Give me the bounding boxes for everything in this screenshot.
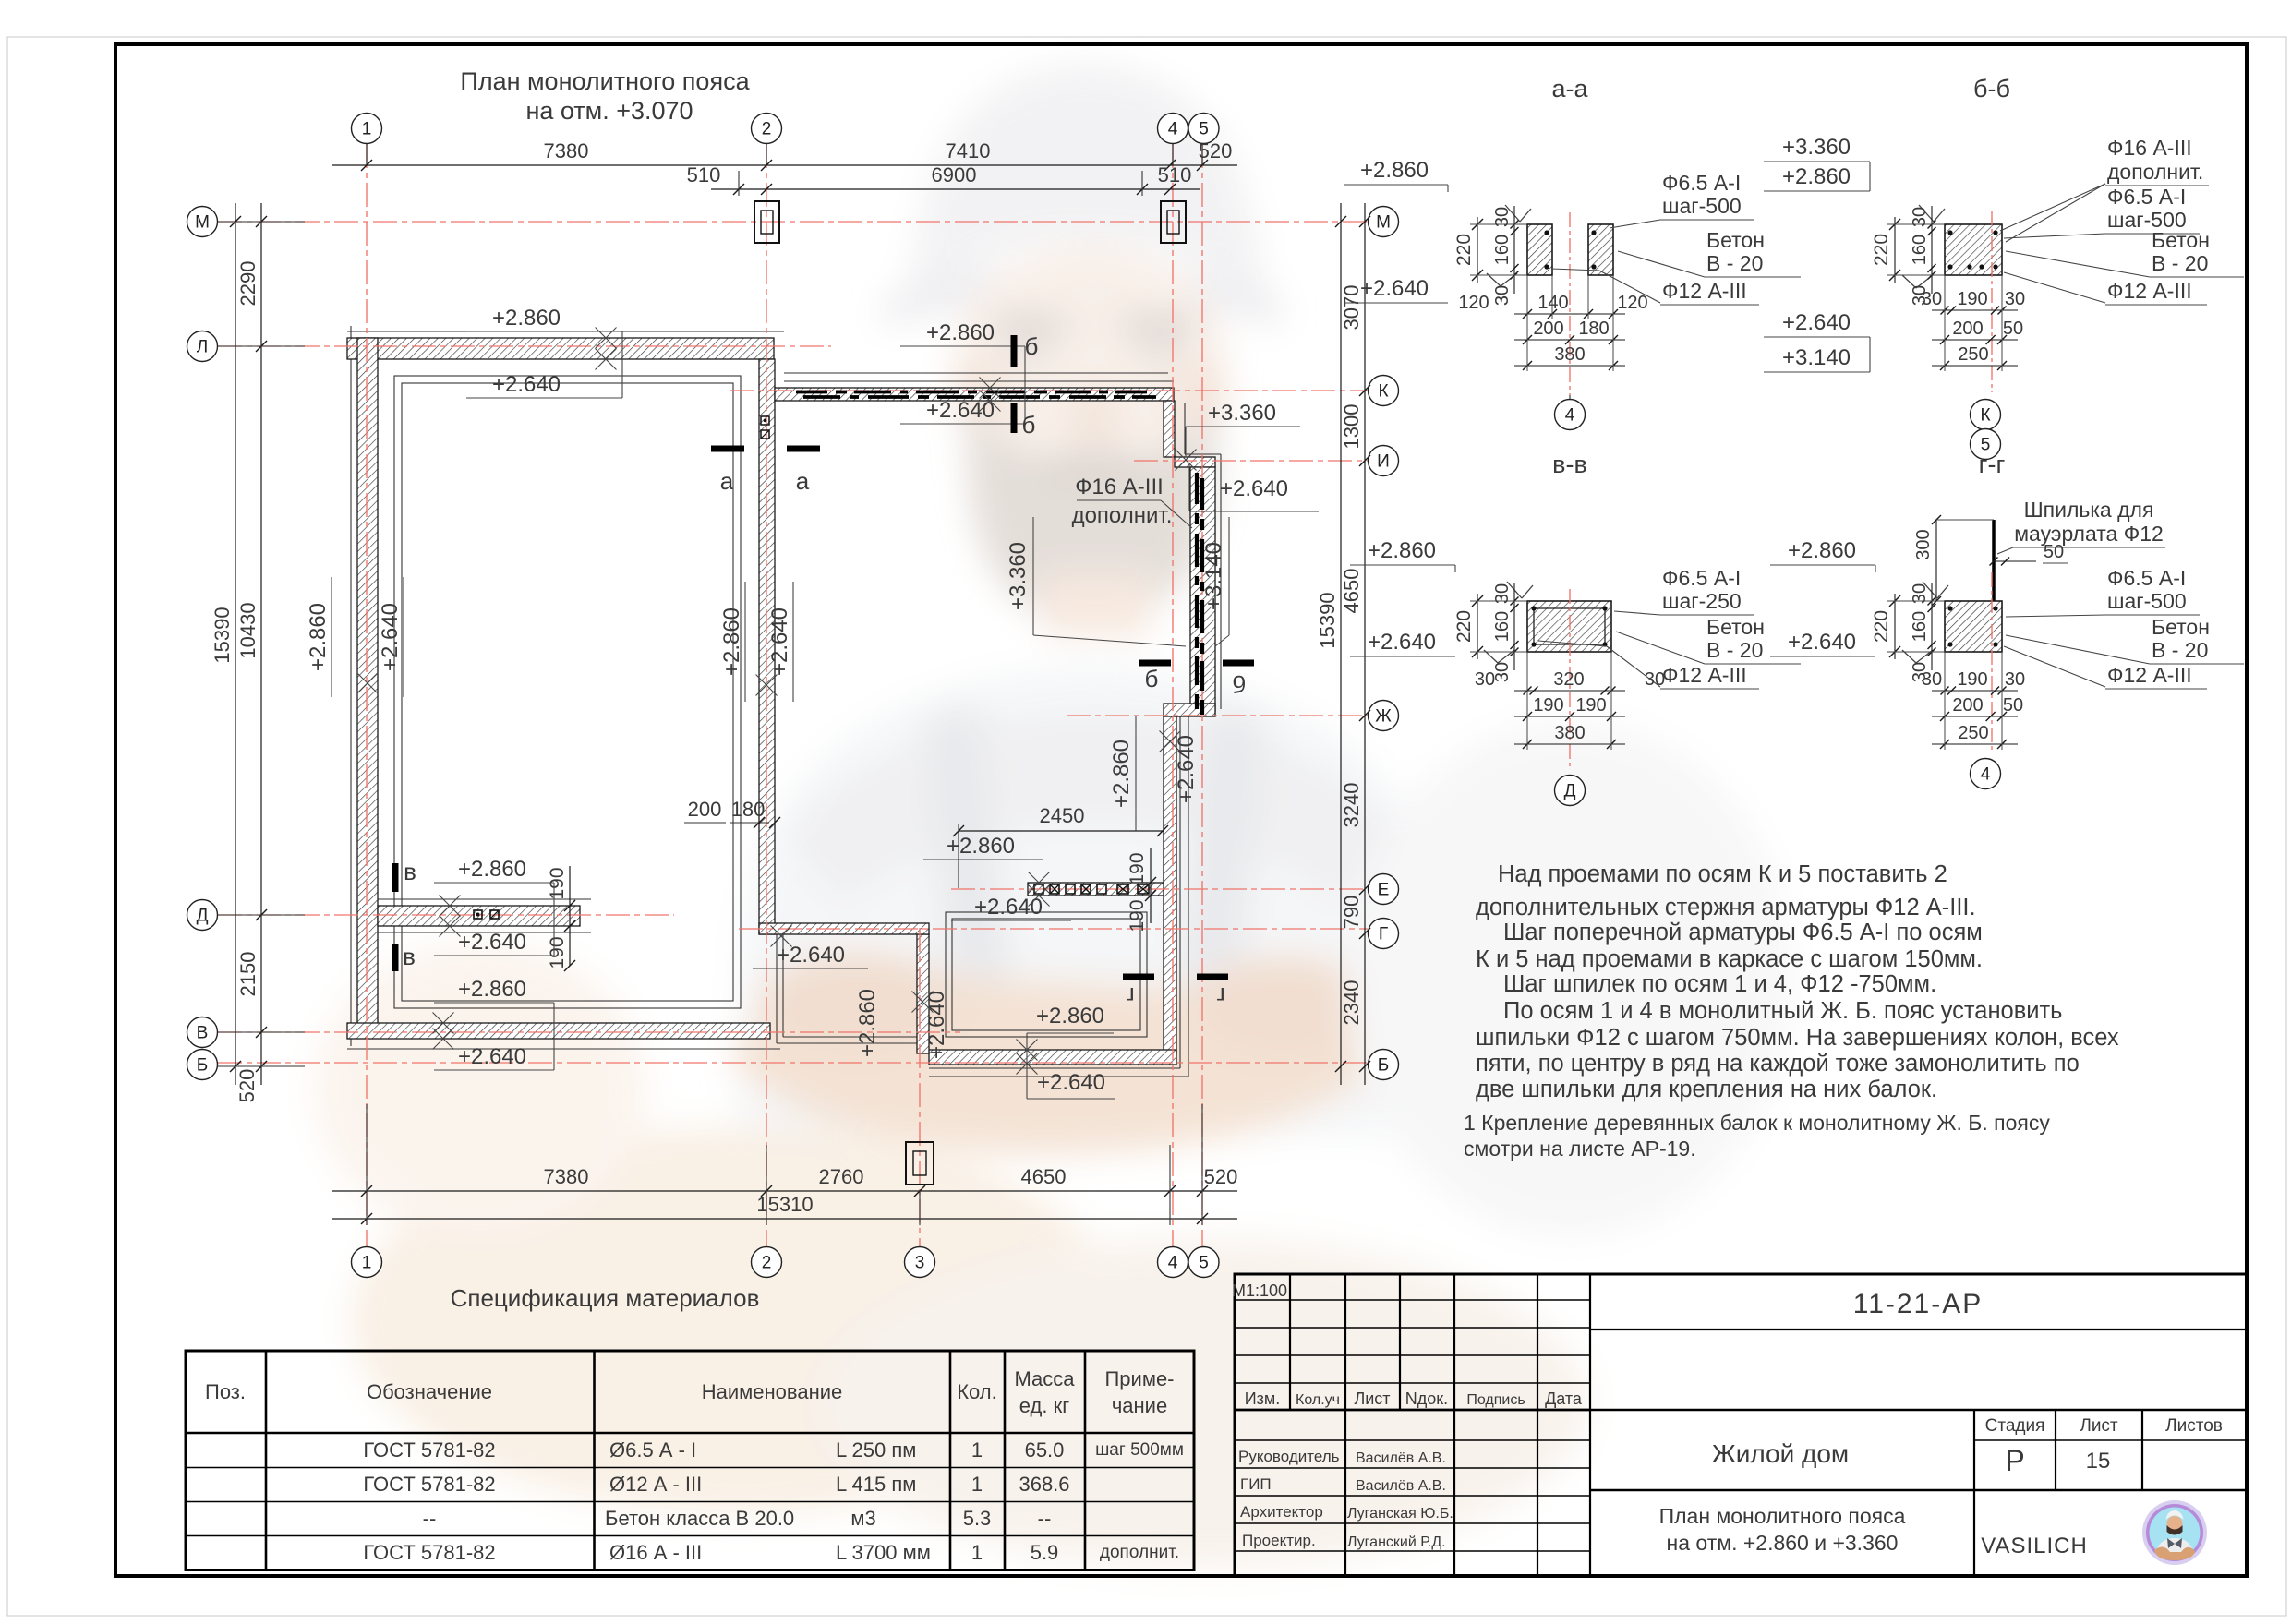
svg-text:ГОСТ 5781-82: ГОСТ 5781-82	[363, 1473, 495, 1496]
svg-text:шаг-500: шаг-500	[2107, 589, 2187, 613]
dim 190 190 at stub end	[569, 866, 571, 966]
rebar section symbols on wall Е	[1034, 884, 1043, 894]
svg-text:15390: 15390	[211, 607, 234, 663]
svg-text:мауэрлата Ф12: мауэрлата Ф12	[2014, 522, 2164, 546]
dim 190 190 at E wall	[1150, 848, 1152, 923]
section а-а dims bottom	[1514, 313, 1625, 315]
svg-text:Кол.: Кол.	[957, 1380, 997, 1403]
svg-text:В: В	[197, 1024, 209, 1043]
svg-text:И: И	[1377, 452, 1390, 472]
svg-text:в: в	[404, 858, 416, 885]
svg-text:520: 520	[235, 1069, 259, 1103]
svg-text:г: г	[1216, 982, 1224, 1010]
svg-text:160: 160	[1910, 235, 1930, 265]
svg-text:+2.640: +2.640	[974, 895, 1043, 920]
svg-text:380: 380	[1554, 723, 1585, 743]
svg-text:190: 190	[1127, 852, 1148, 884]
section г-г concrete	[1945, 601, 2002, 652]
wall outline thin lines	[347, 331, 784, 332]
section а-а circle 4	[1555, 400, 1586, 430]
svg-text:Шпилька для: Шпилька для	[2024, 498, 2154, 522]
svg-text:По осям 1 и 4 в монолитн: По осям 1 и 4 в монолитный Ж. Б. пояс ус…	[1503, 998, 2062, 1024]
wall axis4 upper short	[1164, 401, 1175, 457]
svg-text:10430: 10430	[236, 602, 259, 658]
svg-text:190: 190	[547, 936, 568, 968]
svg-text:Над проемами по осям К и: Над проемами по осям К и 5 поставить 2	[1498, 861, 1947, 887]
svg-text:790: 790	[1340, 896, 1363, 930]
section г-г dim 300	[1935, 520, 1937, 601]
svg-text:+2.640: +2.640	[458, 930, 526, 955]
svg-text:+3.140: +3.140	[1201, 542, 1226, 610]
svg-text:2450: 2450	[1040, 804, 1085, 827]
svg-text:2: 2	[762, 1254, 772, 1273]
svg-text:7380: 7380	[544, 139, 589, 162]
svg-text:380: 380	[1554, 344, 1585, 365]
svg-text:320: 320	[1553, 669, 1584, 690]
svg-text:Луганский Р.Д.: Луганский Р.Д.	[1347, 1534, 1446, 1550]
rebar symbols near axis2/К junction	[761, 416, 769, 425]
rebar section symbols on stub Д	[474, 910, 482, 919]
svg-text:+2.640: +2.640	[378, 603, 403, 671]
svg-text:а: а	[720, 467, 734, 495]
svg-text:Проектир.: Проектир.	[1242, 1532, 1316, 1549]
svg-text:Ф6.5 А-I: Ф6.5 А-I	[1662, 566, 1741, 590]
svg-text:1: 1	[971, 1473, 983, 1496]
svg-text:5: 5	[1199, 120, 1209, 139]
wall Г step horizontal	[759, 923, 929, 934]
svg-text:6900: 6900	[932, 163, 977, 186]
svg-text:ГИП: ГИП	[1240, 1475, 1272, 1493]
svg-text:+2.640: +2.640	[1037, 1070, 1105, 1095]
svg-text:50: 50	[2003, 695, 2023, 716]
svg-text:+2.640: +2.640	[926, 398, 995, 423]
svg-text:220: 220	[1453, 610, 1475, 643]
svg-text:Л: Л	[197, 338, 208, 357]
section в-в dims left	[1477, 594, 1478, 659]
bottom overall dim 15310	[332, 1218, 1237, 1220]
section б-б dims bottom	[1932, 309, 2018, 311]
title block	[1235, 1274, 2247, 1576]
svg-text:+2.640: +2.640	[1368, 630, 1436, 655]
wall И jog	[1175, 457, 1215, 467]
svg-text:510: 510	[1158, 163, 1192, 186]
svg-text:Ø6.5 А - I: Ø6.5 А - I	[609, 1438, 696, 1462]
svg-text:+2.860: +2.860	[306, 603, 331, 671]
svg-text:30: 30	[2005, 289, 2025, 309]
svg-text:+2.640: +2.640	[1220, 476, 1288, 501]
svg-text:Архитектор: Архитектор	[1240, 1503, 1323, 1521]
wall К horizontal hatched band	[775, 388, 1174, 401]
section mark а-а left	[711, 446, 744, 452]
svg-text:б: б	[1233, 670, 1247, 698]
svg-text:Д: Д	[1564, 782, 1576, 801]
section а-а concrete left	[1527, 224, 1552, 275]
svg-text:м3: м3	[850, 1507, 875, 1530]
wall axis 4 lower vertical	[1164, 716, 1176, 1053]
svg-text:4650: 4650	[1340, 569, 1363, 614]
section г-г axis	[1991, 572, 1993, 753]
svg-text:190: 190	[1957, 289, 1987, 309]
column marker axis2/М	[754, 201, 779, 243]
svg-text:Б: Б	[197, 1056, 208, 1076]
section а-а dims left	[1477, 217, 1478, 283]
section б-б circles К 5	[1971, 400, 2001, 430]
svg-text:30: 30	[1922, 669, 1942, 690]
svg-text:+2.860: +2.860	[1036, 1004, 1104, 1029]
axis circles right	[1369, 207, 1399, 237]
svg-text:+2.860: +2.860	[492, 306, 561, 331]
svg-text:30: 30	[1492, 285, 1513, 306]
section в-в concrete	[1527, 601, 1611, 652]
svg-text:65.0: 65.0	[1025, 1438, 1065, 1462]
svg-text:б-б: б-б	[1973, 75, 2010, 102]
svg-text:М1:100: М1:100	[1232, 1281, 1287, 1300]
svg-text:+2.860: +2.860	[1360, 158, 1429, 183]
svg-text:дополнит.: дополнит.	[1072, 503, 1173, 528]
svg-text:Кол.уч: Кол.уч	[1296, 1392, 1340, 1408]
section в-в dims bottom	[1514, 690, 1625, 692]
svg-text:+2.640: +2.640	[924, 991, 949, 1059]
svg-text:Луганская Ю.Б.: Луганская Ю.Б.	[1347, 1506, 1453, 1522]
svg-text:5.3: 5.3	[963, 1507, 992, 1530]
section г-г dims bottom	[1932, 690, 2018, 692]
svg-text:4650: 4650	[1021, 1165, 1067, 1188]
wall Е opening segment	[1028, 883, 1164, 896]
svg-text:б: б	[1025, 332, 1039, 360]
svg-text:160: 160	[1492, 235, 1513, 265]
top dimension chain 510 6900 510	[711, 188, 1200, 190]
svg-text:7380: 7380	[544, 1165, 589, 1188]
section mark б-б upper	[1011, 335, 1018, 367]
spec table	[186, 1351, 1194, 1570]
svg-text:1300: 1300	[1340, 404, 1363, 450]
svg-text:4: 4	[1168, 120, 1178, 139]
svg-text:Ф12 А-III: Ф12 А-III	[2107, 663, 2192, 687]
svg-text:на отм. +2.860 и +3.360: на отм. +2.860 и +3.360	[1667, 1531, 1899, 1555]
svg-text:30: 30	[1922, 289, 1942, 309]
svg-text:+2.860: +2.860	[947, 834, 1015, 859]
wall axis 3 vertical	[917, 934, 929, 1053]
svg-text:510: 510	[687, 163, 721, 186]
right overall dim 15390	[1340, 203, 1342, 1085]
wall axis 2 vertical hatched band	[759, 359, 775, 934]
svg-text:К: К	[1980, 406, 1990, 426]
svg-text:Бетон: Бетон	[1706, 228, 1765, 252]
dim 2450 opening	[959, 830, 1163, 832]
svg-text:+2.860: +2.860	[1109, 740, 1134, 808]
wall Д stub hatched	[378, 906, 580, 926]
svg-text:Ф12 А-III: Ф12 А-III	[2107, 279, 2192, 303]
svg-text:чание: чание	[1112, 1394, 1167, 1417]
svg-text:Приме-: Приме-	[1104, 1367, 1174, 1390]
wall Б bottom-right hatched band	[929, 1050, 1176, 1065]
watermark builder figure	[314, 65, 1791, 1570]
section mark б continuation right	[1223, 660, 1254, 667]
axis circles left	[187, 207, 218, 237]
section а-а concrete right	[1588, 224, 1613, 275]
right segment dims 3070 1300 4650 3240 790 2340	[1364, 203, 1366, 1085]
svg-text:L 3700 мм: L 3700 мм	[836, 1541, 931, 1564]
svg-text:1: 1	[362, 1254, 372, 1273]
svg-text:Ф16 А-III: Ф16 А-III	[1075, 475, 1164, 499]
svg-text:+2.860: +2.860	[458, 977, 526, 1002]
svg-text:4: 4	[1981, 765, 1991, 785]
svg-text:+2.640: +2.640	[777, 943, 845, 968]
svg-text:в-в: в-в	[1552, 451, 1587, 478]
section б-б axis	[1991, 211, 1993, 392]
svg-text:+2.860: +2.860	[926, 320, 995, 345]
svg-text:дополнит.: дополнит.	[1100, 1543, 1179, 1562]
svg-text:1: 1	[971, 1541, 983, 1564]
wall axis 5 vertical	[1190, 467, 1215, 712]
svg-text:+2.640: +2.640	[767, 607, 792, 676]
axis circles top	[352, 114, 382, 144]
svg-text:+3.140: +3.140	[1782, 345, 1851, 370]
section mark г right	[1197, 974, 1228, 980]
svg-text:250: 250	[1958, 344, 1988, 365]
svg-text:+2.640: +2.640	[1788, 630, 1856, 655]
svg-text:дополнит.: дополнит.	[2107, 160, 2203, 184]
svg-text:План монолитного пояса: План монолитного пояса	[460, 67, 750, 95]
svg-text:две шпильки для крепления: две шпильки для крепления на них балок.	[1476, 1077, 1937, 1102]
svg-text:Ф6.5 А-I: Ф6.5 А-I	[2107, 566, 2186, 590]
svg-text:ГОСТ 5781-82: ГОСТ 5781-82	[363, 1541, 495, 1564]
left overall dim 15390	[235, 203, 236, 1085]
svg-text:+2.860: +2.860	[1368, 538, 1436, 563]
svg-text:2290: 2290	[236, 261, 259, 307]
svg-text:+2.860: +2.860	[855, 989, 880, 1057]
svg-text:Ф12 А-III: Ф12 А-III	[1662, 279, 1747, 303]
section г-г dim 50 top	[1994, 560, 2036, 562]
svg-text:шпильки Ф12 с шагом 750мм.: шпильки Ф12 с шагом 750мм. На завершения…	[1476, 1025, 2119, 1051]
svg-text:520: 520	[1204, 1165, 1238, 1188]
svg-text:5.9: 5.9	[1031, 1541, 1059, 1564]
section mark а-а right	[787, 446, 820, 452]
svg-text:+2.640: +2.640	[1360, 276, 1429, 301]
svg-text:200: 200	[1952, 319, 1983, 339]
section mark г left	[1123, 974, 1154, 980]
wall L (axis Л) hatched band	[347, 338, 774, 359]
svg-text:Обозначение: Обозначение	[367, 1380, 492, 1403]
svg-text:15: 15	[2086, 1449, 2111, 1474]
svg-text:+2.860: +2.860	[1788, 538, 1856, 563]
svg-text:4: 4	[1168, 1254, 1178, 1273]
svg-text:Б: Б	[1378, 1056, 1389, 1076]
svg-text:220: 220	[1871, 610, 1892, 643]
svg-text:Бетон: Бетон	[2152, 615, 2210, 639]
svg-text:г: г	[1126, 982, 1134, 1010]
svg-text:190: 190	[547, 867, 568, 899]
svg-text:ГОСТ 5781-82: ГОСТ 5781-82	[363, 1438, 495, 1462]
svg-text:+2.640: +2.640	[492, 372, 561, 397]
svg-text:Шаг шпилек по осям 1 и 4: Шаг шпилек по осям 1 и 4, Ф12 -750мм.	[1503, 971, 1936, 997]
section г-г circle 4	[1971, 759, 2001, 789]
svg-text:4: 4	[1565, 406, 1575, 426]
svg-text:+2.640: +2.640	[1174, 735, 1199, 803]
svg-text:на отм. +3.070: на отм. +3.070	[525, 97, 693, 125]
svg-text:300: 300	[1913, 529, 1934, 559]
svg-text:1: 1	[971, 1438, 983, 1462]
svg-text:50: 50	[2044, 542, 2064, 562]
svg-text:шаг-250: шаг-250	[1662, 589, 1742, 613]
svg-text:220: 220	[1453, 234, 1475, 266]
section г-г pin	[1992, 520, 1996, 646]
svg-text:1: 1	[362, 120, 372, 139]
svg-text:Василёв А.В.: Василёв А.В.	[1356, 1478, 1446, 1494]
svg-text:пяти, по центру в ряд на: пяти, по центру в ряд на каждой тоже зам…	[1476, 1051, 2080, 1077]
svg-text:Листов: Листов	[2165, 1416, 2223, 1436]
svg-text:+3.360: +3.360	[1782, 135, 1851, 160]
svg-text:Руководитель: Руководитель	[1238, 1448, 1340, 1465]
section б-б dims left	[1894, 217, 1896, 283]
svg-text:К: К	[1378, 382, 1388, 402]
svg-text:В - 20: В - 20	[2152, 638, 2208, 662]
svg-text:шаг 500мм: шаг 500мм	[1095, 1440, 1184, 1460]
svg-text:Бетон: Бетон	[2152, 228, 2210, 252]
svg-text:Д: Д	[197, 907, 209, 926]
svg-text:Р: Р	[2005, 1444, 2024, 1477]
svg-text:В - 20: В - 20	[2152, 251, 2208, 275]
svg-text:Ø16 А - III: Ø16 А - III	[609, 1541, 702, 1564]
svg-text:220: 220	[1871, 234, 1892, 266]
axis circles bottom	[352, 1247, 382, 1278]
svg-text:+2.860: +2.860	[719, 607, 744, 676]
svg-text:Шаг поперечной арматуры Ф6.: Шаг поперечной арматуры Ф6.5 А-I по осям	[1503, 920, 1983, 945]
column marker axis4/М	[1161, 201, 1186, 243]
svg-text:Бетон класса В 20.0: Бетон класса В 20.0	[605, 1507, 794, 1530]
svg-text:520: 520	[1199, 139, 1233, 162]
svg-text:190: 190	[1575, 695, 1606, 716]
svg-text:б: б	[1022, 411, 1036, 439]
svg-text:дополнительных стержня армат: дополнительных стержня арматуры Ф12 А-II…	[1476, 895, 1976, 920]
section mark б continuation left	[1139, 660, 1171, 667]
svg-text:2150: 2150	[236, 952, 259, 997]
svg-text:368.6: 368.6	[1019, 1473, 1069, 1496]
svg-text:VASILICH: VASILICH	[1981, 1534, 2088, 1558]
svg-text:Дата: Дата	[1545, 1389, 1583, 1408]
svg-text:шаг-500: шаг-500	[1662, 194, 1742, 218]
svg-text:Наименование: Наименование	[702, 1380, 843, 1403]
svg-text:+2.860: +2.860	[1782, 164, 1851, 189]
svg-text:15390: 15390	[1316, 592, 1339, 648]
section б-б concrete	[1945, 224, 2002, 275]
svg-text:Стадия: Стадия	[1985, 1416, 2045, 1436]
svg-text:200: 200	[1533, 319, 1563, 339]
svg-text:15310: 15310	[756, 1193, 813, 1216]
svg-text:Подпись: Подпись	[1466, 1392, 1525, 1408]
svg-text:Ф12 А-III: Ф12 А-III	[1662, 663, 1747, 687]
svg-text:140: 140	[1537, 293, 1568, 313]
left segment dims 2290 10430 2150 520	[260, 203, 262, 1085]
svg-text:Жилой дом: Жилой дом	[1712, 1439, 1849, 1468]
svg-text:Изм.: Изм.	[1245, 1389, 1281, 1408]
svg-text:б: б	[1145, 665, 1159, 692]
svg-text:+2.640: +2.640	[458, 1044, 526, 1069]
svg-text:180: 180	[1578, 319, 1609, 339]
svg-text:11-21-АР: 11-21-АР	[1853, 1289, 1984, 1319]
svg-text:--: --	[423, 1507, 437, 1530]
svg-text:L 415 пм: L 415 пм	[836, 1473, 916, 1496]
svg-text:2: 2	[762, 120, 772, 139]
column marker axis3 bottom	[906, 1142, 934, 1185]
svg-text:120: 120	[1458, 293, 1489, 313]
svg-text:30: 30	[1475, 669, 1495, 690]
svg-text:К и 5 над проемами в кар: К и 5 над проемами в каркасе с шагом 150…	[1476, 946, 1983, 972]
svg-text:Поз.: Поз.	[205, 1380, 246, 1403]
svg-text:3240: 3240	[1340, 783, 1363, 828]
section г-г dims left	[1894, 594, 1896, 659]
svg-text:200: 200	[688, 798, 722, 821]
top dimension chain 7380 7410 520	[332, 164, 1237, 166]
svg-text:Василёв А.В.: Василёв А.В.	[1356, 1450, 1446, 1466]
svg-text:Бетон: Бетон	[1706, 615, 1765, 639]
svg-text:120: 120	[1617, 293, 1647, 313]
svg-text:1 Крепление деревянных бало: 1 Крепление деревянных балок к монолитно…	[1464, 1111, 2050, 1135]
vasilich logo badge	[2142, 1500, 2207, 1565]
svg-text:L 250 пм: L 250 пм	[836, 1438, 916, 1462]
svg-text:в: в	[403, 943, 416, 970]
svg-text:Ф6.5 А-I: Ф6.5 А-I	[1662, 171, 1741, 195]
section mark в upper	[392, 863, 399, 892]
svg-text:+3.360: +3.360	[1006, 542, 1031, 610]
svg-text:7410: 7410	[946, 139, 991, 162]
svg-text:М: М	[1376, 213, 1391, 233]
svg-text:+2.860: +2.860	[458, 857, 526, 882]
svg-text:--: --	[1038, 1507, 1052, 1530]
section mark б-б lower	[1011, 403, 1018, 433]
svg-text:160: 160	[1492, 611, 1513, 642]
svg-text:190: 190	[1127, 899, 1148, 932]
svg-text:Ж: Ж	[1375, 707, 1392, 727]
section в-в axis	[1569, 589, 1571, 770]
additional rebar Ф16 dashes on wall К	[796, 391, 827, 394]
svg-text:Е: Е	[1378, 881, 1390, 900]
additional rebar Ф16 vertical dashes on axis5 wall	[1195, 473, 1199, 504]
svg-text:190: 190	[1957, 669, 1987, 690]
svg-text:+3.360: +3.360	[1208, 401, 1276, 426]
svg-text:190: 190	[1533, 695, 1563, 716]
wall Ж jog	[1164, 704, 1215, 716]
svg-text:3: 3	[915, 1254, 925, 1273]
axis grid red lines	[366, 144, 368, 1246]
svg-text:Ф6.5 А-I: Ф6.5 А-I	[2107, 185, 2186, 209]
svg-text:30: 30	[2005, 669, 2025, 690]
svg-text:+2.640: +2.640	[1782, 310, 1851, 335]
svg-text:М: М	[195, 213, 210, 233]
svg-text:Ø12 А - III: Ø12 А - III	[609, 1473, 702, 1496]
svg-text:а: а	[796, 467, 810, 495]
svg-text:5: 5	[1199, 1254, 1209, 1273]
svg-text:50: 50	[2003, 319, 2023, 339]
svg-text:30: 30	[1492, 662, 1513, 682]
wall axis 1 hatched band	[357, 338, 378, 1038]
svg-text:2340: 2340	[1340, 980, 1363, 1026]
bottom dimension chain 7380 2760 4650 520	[332, 1190, 1237, 1192]
svg-text:а-а: а-а	[1551, 75, 1588, 102]
section в-в circle Д	[1555, 776, 1586, 806]
svg-text:Ф16 А-III: Ф16 А-III	[2107, 136, 2192, 160]
svg-text:200: 200	[1952, 695, 1983, 716]
svg-text:160: 160	[1910, 611, 1930, 642]
svg-text:В - 20: В - 20	[1706, 638, 1763, 662]
svg-text:Лист: Лист	[1354, 1389, 1390, 1408]
svg-text:смотри на листе АР-19.: смотри на листе АР-19.	[1464, 1137, 1696, 1161]
svg-text:План монолитного пояса: План монолитного пояса	[1659, 1504, 1906, 1528]
section mark в lower	[392, 944, 399, 971]
svg-text:ед. кг: ед. кг	[1019, 1394, 1069, 1417]
svg-text:В - 20: В - 20	[1706, 251, 1763, 275]
svg-text:Г: Г	[1379, 925, 1388, 944]
